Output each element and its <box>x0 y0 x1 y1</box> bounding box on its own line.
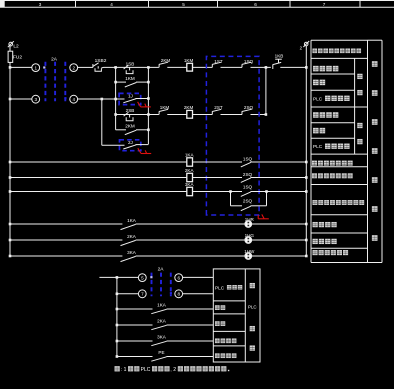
svg-text:1KM: 1KM <box>184 58 194 63</box>
svg-text:6: 6 <box>254 2 257 7</box>
svg-text:2KM: 2KM <box>125 124 135 129</box>
svg-text::: : <box>121 368 122 373</box>
svg-text:2SQ: 2SQ <box>243 199 253 204</box>
svg-text:PE: PE <box>158 350 164 355</box>
svg-text:7: 7 <box>323 2 326 7</box>
svg-text:3KA: 3KA <box>185 182 195 187</box>
svg-text:L2: L2 <box>13 43 19 49</box>
svg-text:2: 2 <box>173 367 176 373</box>
svg-text:1SB: 1SB <box>126 61 135 66</box>
svg-text:2: 2 <box>73 66 76 71</box>
svg-text:1J: 1J <box>128 94 133 99</box>
svg-text:4: 4 <box>110 2 113 7</box>
svg-text:2KA: 2KA <box>127 234 137 239</box>
svg-text:1SQ: 1SQ <box>243 157 253 162</box>
svg-text:PLC: PLC <box>313 144 323 149</box>
svg-text:1KA: 1KA <box>185 153 195 158</box>
svg-text:1KA: 1KA <box>157 303 167 308</box>
svg-text:2KA: 2KA <box>185 168 195 173</box>
svg-text:2SQ: 2SQ <box>243 172 253 177</box>
svg-text:1KA: 1KA <box>127 218 137 223</box>
svg-text:FU2: FU2 <box>13 55 22 61</box>
svg-text:2A: 2A <box>51 56 58 62</box>
svg-text:3KA: 3KA <box>127 250 137 255</box>
svg-text:3: 3 <box>39 2 42 7</box>
svg-text:2A: 2A <box>158 267 165 273</box>
svg-text:PLC: PLC <box>141 367 151 373</box>
svg-text:5: 5 <box>141 276 144 281</box>
svg-text:1: 1 <box>124 367 127 373</box>
svg-text:PLC: PLC <box>215 285 225 290</box>
svg-text:2SB: 2SB <box>126 108 135 113</box>
svg-text:2KM: 2KM <box>184 105 194 110</box>
svg-text:5: 5 <box>182 2 185 7</box>
svg-text:1SQ: 1SQ <box>243 185 253 190</box>
svg-text:4: 4 <box>73 97 76 102</box>
svg-text:PLC: PLC <box>313 96 323 101</box>
svg-text:3: 3 <box>35 97 38 102</box>
svg-text:2KA: 2KA <box>157 319 167 324</box>
svg-text:1: 1 <box>35 66 38 71</box>
svg-text:1KB: 1KB <box>275 54 284 59</box>
svg-text:,: , <box>170 368 171 373</box>
svg-text:1SB2: 1SB2 <box>95 58 107 64</box>
svg-text:PLC: PLC <box>248 304 257 309</box>
svg-text:8: 8 <box>178 292 181 297</box>
svg-text:2ST: 2ST <box>214 105 223 110</box>
svg-text:2SQ: 2SQ <box>244 105 254 110</box>
svg-text:6: 6 <box>178 276 181 281</box>
svg-text:7: 7 <box>141 292 144 297</box>
svg-text:1KM: 1KM <box>125 76 135 81</box>
svg-text:3KA: 3KA <box>157 335 167 340</box>
svg-text:2J: 2J <box>128 140 133 145</box>
